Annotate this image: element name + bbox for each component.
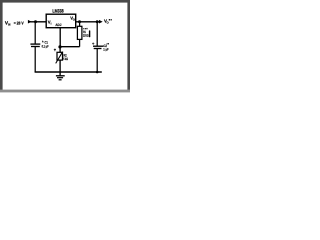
wire ADJ to R1 bottom <box>60 46 80 48</box>
border frame <box>0 0 130 3</box>
footnote mark for C1 <box>42 40 44 42</box>
output arrowhead <box>99 20 103 24</box>
footnote marks for C2 <box>107 43 109 44</box>
wire R1 bottom lead <box>79 39 81 46</box>
wire C1 lower lead <box>34 47 36 73</box>
regulator U1 box <box>46 14 75 28</box>
node input C1 junction <box>34 20 37 23</box>
potentiometer R2 <box>56 51 63 63</box>
footnote mark for R2 <box>54 49 56 52</box>
svg-text:IN: IN <box>8 23 10 27</box>
svg-text:1 µF: 1 µF <box>103 47 108 51</box>
printed bar mark right of R1 label <box>89 30 90 37</box>
footnote marks for R1 <box>83 28 87 29</box>
resistor R1 <box>77 26 82 39</box>
wire ADJ junction to R2 <box>59 47 61 52</box>
svg-text:120Ω: 120Ω <box>83 34 89 38</box>
footnote marks for VO <box>109 19 112 21</box>
node output C2 junction <box>96 20 99 23</box>
wire C2 upper lead <box>96 22 98 46</box>
node rail C2 junction <box>96 71 99 74</box>
wire C1 upper lead <box>34 22 36 44</box>
wire C2 lower lead <box>96 49 98 73</box>
svg-text:= 28 V: = 28 V <box>14 21 24 26</box>
capacitor C2 <box>93 46 103 48</box>
wire input to VI <box>28 21 46 23</box>
wire R2 bottom lead <box>59 60 61 72</box>
wire VO to output <box>76 21 101 23</box>
svg-text:5 kΩ: 5 kΩ <box>63 57 68 61</box>
wire ADJ pin down <box>59 28 61 47</box>
wire R1 top lead <box>79 22 81 27</box>
background <box>0 0 130 95</box>
node ADJ junction <box>58 45 61 48</box>
input arrowhead <box>28 20 32 24</box>
svg-text:0.1 µF: 0.1 µF <box>42 45 49 49</box>
wire bottom rail <box>35 71 102 73</box>
svg-text:ADJ: ADJ <box>55 23 61 27</box>
node output R1 junction <box>78 20 81 23</box>
capacitor C1 <box>30 44 40 46</box>
ground <box>56 72 65 80</box>
